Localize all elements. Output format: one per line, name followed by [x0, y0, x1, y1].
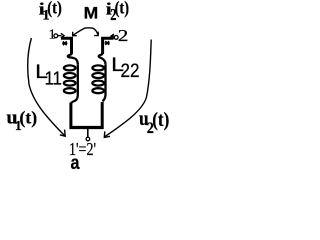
- svg-text:(t): (t): [115, 0, 130, 18]
- svg-text:1: 1: [49, 28, 56, 43]
- svg-text:a: a: [71, 152, 80, 172]
- svg-text:(t): (t): [152, 109, 169, 131]
- svg-text:11: 11: [45, 68, 62, 88]
- svg-text:22: 22: [121, 61, 140, 82]
- svg-text:M: M: [84, 4, 99, 23]
- svg-text:2: 2: [118, 26, 129, 45]
- svg-text:(t): (t): [19, 108, 37, 129]
- svg-text:(t): (t): [47, 0, 62, 19]
